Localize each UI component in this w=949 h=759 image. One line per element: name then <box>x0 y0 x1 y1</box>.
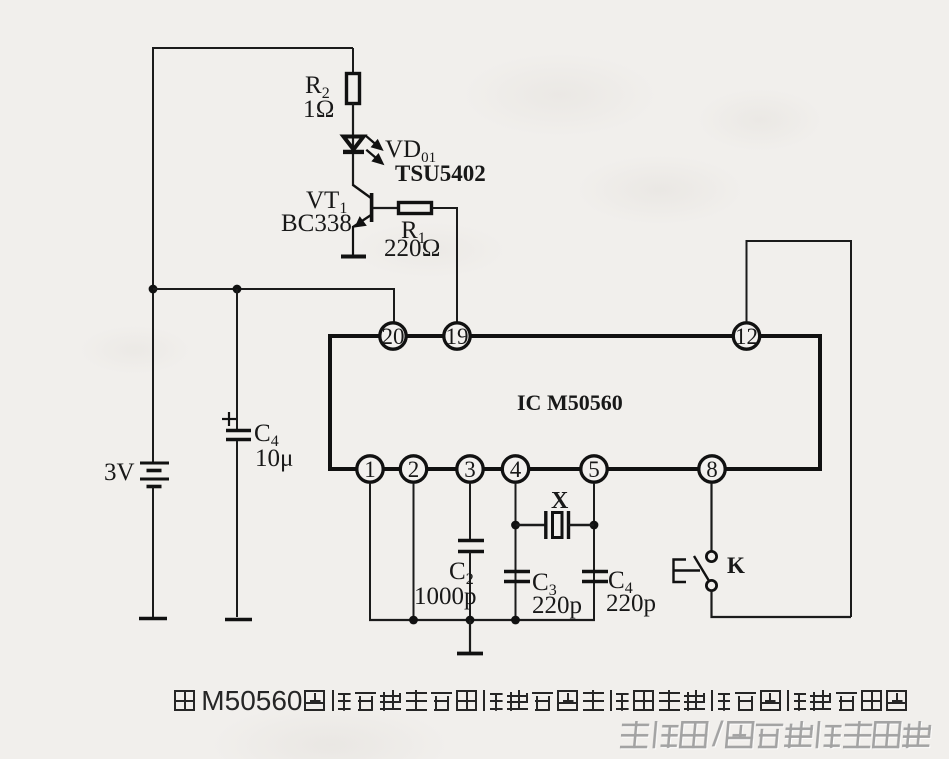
node rail pin4 <box>511 616 520 625</box>
pin 12 <box>733 323 759 349</box>
capacitor C4 10u <box>222 289 251 617</box>
node rail pin2 <box>409 616 418 625</box>
label C4 10u <box>254 420 293 472</box>
battery 3V <box>140 463 169 487</box>
svg-text:20: 20 <box>382 324 405 349</box>
wire switch to right rail <box>712 591 852 618</box>
svg-text:5: 5 <box>588 457 600 482</box>
IC U1 M50560 body <box>330 336 820 469</box>
wire C2 to rail <box>469 552 471 620</box>
wire supply rail to pin 20 <box>153 289 394 322</box>
svg-text:2: 2 <box>408 457 420 482</box>
label VT1 BC338 <box>281 187 352 237</box>
node supply-left junction <box>149 285 158 294</box>
svg-text:K: K <box>727 553 745 578</box>
svg-text:10μ: 10μ <box>255 445 293 472</box>
svg-text:12: 12 <box>735 324 758 349</box>
svg-text:3: 3 <box>464 457 476 482</box>
label R1 value <box>384 217 441 262</box>
crystal X <box>516 511 595 539</box>
transistor VT1 <box>353 185 372 255</box>
wire pin 4 down <box>515 483 517 620</box>
pin 4 <box>502 456 528 482</box>
svg-text:8: 8 <box>706 457 718 482</box>
pin 2 <box>400 456 426 482</box>
ground (oscillator) <box>457 620 483 654</box>
wire pin 12 to right rail <box>747 241 852 617</box>
wire top rail to R2 <box>352 48 354 74</box>
label C2 1000p <box>414 558 477 610</box>
svg-text:X: X <box>551 488 569 514</box>
pin 19 <box>444 323 470 349</box>
pin 5 <box>581 456 607 482</box>
pin 3 <box>457 456 483 482</box>
pin 8 <box>699 456 725 482</box>
svg-text:BC338: BC338 <box>281 210 352 237</box>
wire battery negative <box>152 487 154 617</box>
label C3 220p <box>532 569 582 619</box>
node crystal left junction <box>511 521 520 530</box>
watermark row <box>620 721 934 749</box>
svg-text:220p: 220p <box>532 592 582 619</box>
svg-text:4: 4 <box>510 457 522 482</box>
svg-text:1: 1 <box>364 457 376 482</box>
wire pin 8 to switch <box>710 483 712 551</box>
wire left supply vertical <box>152 47 154 463</box>
svg-text:IC M50560: IC M50560 <box>517 390 623 415</box>
wire pin 3 to C2 <box>469 483 471 540</box>
label VD01 TSU5402 <box>385 136 486 186</box>
wire R1 to pin 19 <box>432 208 457 322</box>
wire pin 5 down <box>593 483 595 620</box>
battery terminal bar <box>139 617 167 621</box>
wire R2 to LED <box>352 103 354 186</box>
svg-text:19: 19 <box>446 324 469 349</box>
capacitor C4b 220p <box>582 572 608 582</box>
svg-text:3V: 3V <box>104 459 135 486</box>
svg-text:220p: 220p <box>606 590 656 617</box>
node crystal right junction <box>590 521 599 530</box>
label R2 value <box>303 72 335 123</box>
node C4 tap junction <box>233 285 242 294</box>
ground (emitter) <box>341 255 366 259</box>
LED VD01 <box>343 136 382 164</box>
svg-text:TSU5402: TSU5402 <box>395 161 486 186</box>
switch K <box>674 551 717 590</box>
svg-text:220Ω: 220Ω <box>384 235 441 262</box>
wire pin 2 down <box>413 483 415 620</box>
resistor R2 <box>347 74 360 104</box>
wire top supply rail <box>153 47 353 49</box>
wire pin 1 down <box>369 483 371 620</box>
wire bottom rail <box>369 619 595 621</box>
node rail pin3 <box>466 616 475 625</box>
svg-text:1000p: 1000p <box>414 583 477 610</box>
capacitor C4 terminal bar <box>225 618 252 622</box>
caption text row <box>174 690 912 712</box>
svg-text:1Ω: 1Ω <box>303 96 335 123</box>
capacitor C3 <box>504 572 530 582</box>
capacitor C2 <box>458 541 484 552</box>
resistor R1 <box>399 203 432 214</box>
label C4b 220p <box>606 567 656 617</box>
pin 20 <box>380 323 406 349</box>
pin 1 <box>357 456 383 482</box>
wire base to R1 <box>373 207 398 209</box>
